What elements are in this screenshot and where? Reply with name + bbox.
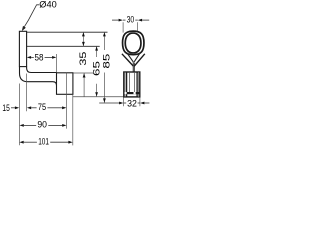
extension lines for 30 — [122, 22, 124, 32]
svg-text:85: 85 — [101, 54, 112, 69]
svg-text:90: 90 — [37, 120, 47, 131]
extension line x72.8 down — [72, 94, 74, 145]
wall plate (side view) — [19, 31, 26, 66]
dimension 32 — [99, 98, 149, 109]
ring outer outline (front view) — [123, 31, 144, 55]
svg-text:35: 35 — [78, 52, 89, 66]
base right band core — [138, 72, 140, 96]
end block (side view) — [57, 73, 73, 95]
neck inner V right — [134, 53, 140, 62]
neck inner V left — [127, 53, 134, 62]
dimension 85 (rotated) — [101, 32, 112, 103]
base (front view) — [124, 72, 140, 97]
svg-text:101: 101 — [38, 136, 49, 147]
arm bottom edge line — [27, 45, 100, 47]
neck outer V left — [122, 54, 133, 66]
base left band core — [124, 72, 126, 96]
block internal seam line — [66, 73, 68, 95]
neck stem left line — [132, 62, 134, 73]
stem lines inside base — [129, 73, 131, 92]
bracket arm under plate (L shape) — [20, 67, 57, 86]
dimension 30 — [112, 15, 149, 26]
leader line Ø40 — [23, 5, 39, 29]
ring inner outline — [125, 33, 141, 53]
dimension 101 — [19, 136, 72, 147]
neck outer V right — [134, 54, 145, 66]
svg-text:58: 58 — [35, 52, 44, 63]
leader arrow for Ø40 — [22, 26, 26, 31]
extension line left (x19.4) — [18, 84, 20, 146]
base bottom extension line — [73, 96, 124, 98]
base right inner line — [136, 72, 138, 97]
dimension 35 (rotated) — [78, 32, 89, 66]
svg-text:75: 75 — [38, 102, 46, 113]
dimension 90 — [20, 120, 67, 131]
small dim arrow at x84 — [83, 73, 86, 97]
short reference line y73 — [73, 72, 93, 74]
dimension 15 and 75 — [2, 102, 66, 114]
base left inner line — [126, 72, 128, 97]
svg-text:30: 30 — [127, 15, 135, 26]
extension line x66.5 down — [66, 94, 68, 128]
svg-text:32: 32 — [127, 98, 137, 109]
dimension 65 (rotated) — [92, 46, 103, 96]
extension lines for 32 — [123, 98, 125, 107]
notch right — [134, 92, 136, 94]
bracket inner fillet — [27, 67, 57, 73]
base internal thick band — [124, 92, 140, 94]
extension line plate right (x26.6) — [26, 74, 28, 112]
extension line for 58 (block left edge up) — [55, 54, 57, 73]
svg-text:15: 15 — [2, 103, 9, 114]
svg-text:Ø40: Ø40 — [39, 0, 56, 11]
neck stem right line — [133, 63, 135, 73]
notch left — [125, 92, 127, 94]
dimension 58 — [27, 52, 57, 63]
arm top edge line — [27, 31, 108, 33]
